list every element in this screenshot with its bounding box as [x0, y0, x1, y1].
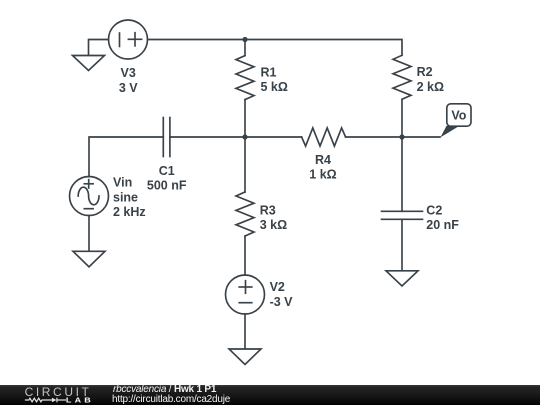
capacitor C1 [163, 118, 170, 157]
svg-text:500 nF: 500 nF [147, 179, 187, 193]
resistor R4 [302, 128, 346, 146]
svg-text:V3: V3 [121, 66, 136, 80]
svg-text:-3 V: -3 V [270, 295, 294, 309]
svg-text:R3: R3 [260, 203, 276, 217]
node B junction dot [242, 134, 247, 139]
voltage source V3 [109, 20, 148, 59]
wire C2 to ground [401, 219, 403, 270]
svg-text:R1: R1 [261, 65, 277, 79]
svg-text:5 kΩ: 5 kΩ [261, 80, 288, 94]
wire R4 to node C [346, 136, 402, 138]
voltage source Vin (sine) [70, 177, 109, 216]
svg-text:sine: sine [113, 190, 138, 204]
wire node A to R1 [244, 40, 246, 56]
credit line 1 [113, 384, 216, 395]
svg-text:2 kΩ: 2 kΩ [417, 80, 444, 94]
credit line 2 [112, 394, 230, 405]
svg-text:20 nF: 20 nF [426, 218, 459, 232]
resistor R2 [393, 55, 411, 99]
wire Vin top to C1 left [89, 137, 163, 177]
svg-text:V2: V2 [270, 280, 285, 294]
wire node B to R3 [244, 137, 246, 192]
resistor R3 [236, 192, 254, 236]
svg-text:R2: R2 [417, 65, 433, 79]
capacitor C2 [382, 211, 423, 219]
node C junction dot [399, 134, 404, 139]
svg-text:Vin: Vin [113, 176, 132, 190]
ground (top-left, V3) [73, 56, 105, 71]
svg-text:Vo: Vo [451, 109, 466, 123]
svg-text:2 kHz: 2 kHz [113, 205, 146, 219]
svg-text:1 kΩ: 1 kΩ [309, 168, 336, 182]
wire R1 bottom to node B [244, 100, 246, 137]
svg-text:R4: R4 [315, 153, 331, 167]
node A junction dot [242, 37, 247, 42]
svg-text:3 kΩ: 3 kΩ [260, 218, 287, 232]
wire node C to Vo flag [402, 136, 440, 138]
wire node B to R4 [245, 136, 302, 138]
svg-text:LAB: LAB [66, 397, 94, 405]
node Vo flag pointer [441, 126, 460, 138]
wire V3 to node A [148, 39, 246, 41]
ground (below C2) [386, 271, 418, 286]
wire C1 right to node B [170, 136, 245, 138]
ground (below V2) [229, 349, 261, 365]
resistor R1 [236, 56, 254, 100]
voltage source V2 [226, 275, 265, 314]
svg-text:3 V: 3 V [119, 81, 138, 95]
svg-text:C1: C1 [159, 164, 175, 178]
wire R2 bottom to node C [401, 99, 403, 137]
svg-text:C2: C2 [426, 203, 442, 217]
wire from V3 negative terminal to ground [89, 40, 109, 56]
CircuitLab logo [22, 384, 102, 405]
wire node C to C2 [401, 137, 403, 211]
ground (below Vin) [73, 251, 105, 266]
node Vo flag box [447, 104, 471, 126]
wire V2 to ground [244, 314, 246, 349]
wire Vin bottom to ground [88, 216, 90, 252]
footer bar [0, 385, 540, 405]
wire R3 to V2 [244, 236, 246, 275]
wire node A to R2 top [245, 40, 402, 56]
